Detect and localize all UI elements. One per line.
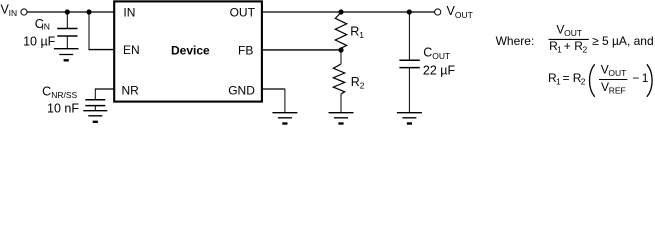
svg-text:C: C bbox=[42, 85, 51, 99]
svg-text:Device: Device bbox=[171, 44, 210, 58]
svg-text:1: 1 bbox=[556, 76, 561, 86]
svg-text:22 µF: 22 µF bbox=[423, 63, 456, 77]
svg-text:OUT: OUT bbox=[432, 51, 450, 61]
svg-text:NR: NR bbox=[122, 83, 140, 97]
svg-text:NR/SS: NR/SS bbox=[51, 90, 77, 100]
svg-text:IN: IN bbox=[9, 8, 18, 18]
svg-text:OUT: OUT bbox=[608, 68, 626, 78]
svg-text:10 nF: 10 nF bbox=[47, 101, 79, 115]
svg-text:REF: REF bbox=[609, 86, 626, 96]
svg-text:1: 1 bbox=[359, 30, 364, 40]
svg-text:OUT: OUT bbox=[564, 28, 582, 38]
svg-text:+: + bbox=[564, 39, 571, 53]
svg-text:10 µF: 10 µF bbox=[23, 35, 56, 49]
svg-text:IN: IN bbox=[41, 22, 50, 32]
svg-text:GND: GND bbox=[228, 83, 255, 97]
svg-text:=: = bbox=[563, 71, 570, 85]
svg-text:EN: EN bbox=[123, 43, 140, 57]
svg-text:−: − bbox=[632, 71, 639, 85]
svg-text:R: R bbox=[350, 24, 359, 38]
svg-text:OUT: OUT bbox=[455, 10, 473, 20]
svg-text:IN: IN bbox=[123, 6, 135, 20]
svg-text:Where:: Where: bbox=[496, 34, 535, 48]
svg-text:2: 2 bbox=[583, 45, 588, 55]
svg-text:C: C bbox=[423, 46, 432, 60]
svg-text:FB: FB bbox=[238, 43, 253, 57]
svg-text:OUT: OUT bbox=[230, 6, 256, 20]
svg-text:≥ 5 µA, and: ≥ 5 µA, and bbox=[592, 34, 654, 48]
svg-text:R: R bbox=[351, 75, 360, 89]
svg-text:2: 2 bbox=[581, 76, 586, 86]
svg-text:1: 1 bbox=[642, 71, 649, 85]
svg-text:1: 1 bbox=[557, 45, 562, 55]
svg-text:2: 2 bbox=[360, 81, 365, 91]
